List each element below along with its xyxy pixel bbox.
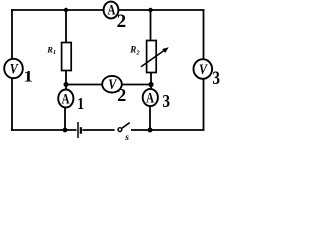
rheostat arrow [141,49,166,67]
node top-left junction [64,8,68,12]
battery cell short thick plate [80,127,82,134]
wire bottom battery to switch [82,129,114,131]
ammeter A1 [58,90,73,108]
node bottom-right junction [148,128,153,133]
svg-text:s: s [124,133,129,143]
battery cell long plate [77,122,79,138]
switch lever [122,123,130,129]
switch S pivot [118,128,122,132]
resistor R2 (rheostat) [147,41,157,73]
wire bottom after switch [131,129,204,131]
wire right edge lower [203,79,205,130]
wire A3 to bottom [149,106,151,130]
voltmeter V3 [194,59,213,79]
wire A1 to bottom [64,107,66,130]
wire right edge upper [203,9,205,60]
wire branch R2 top [150,10,152,41]
node B junction [64,82,69,87]
svg-text:V: V [199,61,208,78]
node top-right junction [148,8,152,12]
wire left edge upper [11,9,13,59]
wire V2 to node C [122,84,152,86]
svg-text:2: 2 [117,11,127,32]
wire node B to V2 [66,84,103,86]
svg-text:A: A [62,91,70,107]
voltmeter V2 [102,76,122,93]
wire bottom before battery [11,129,76,131]
ammeter A2 [104,2,119,19]
voltmeter V1 [4,59,23,78]
svg-text:V: V [10,60,19,77]
wire R1 to node B [65,71,67,90]
svg-text:2: 2 [117,85,126,105]
svg-text:A: A [107,2,115,18]
wire top-left segment [11,9,104,11]
wire left edge lower [11,78,13,131]
svg-text:1: 1 [23,67,33,85]
wire branch R1 top [65,10,67,43]
wire R2 to node C [150,73,152,90]
wire top-right segment [119,9,205,11]
resistor R1 [62,43,72,71]
svg-text:A: A [146,90,154,106]
node C junction [148,82,153,87]
ammeter A3 [143,89,158,106]
node bottom-left junction [63,128,68,133]
svg-text:V: V [108,76,117,93]
svg-text:1: 1 [77,95,84,114]
svg-text:3: 3 [162,91,170,111]
svg-text:3: 3 [212,68,220,89]
